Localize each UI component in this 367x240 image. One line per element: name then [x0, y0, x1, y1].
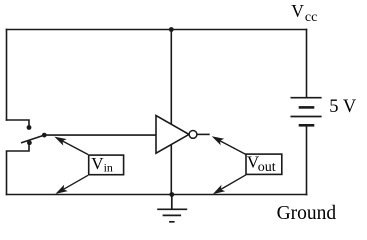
- wire right vertical upper: [306, 30, 308, 98]
- switch SW1 lever: [21, 135, 44, 143]
- ground symbol: [157, 195, 187, 222]
- wire switch lower contact branch: [7, 144, 30, 195]
- svg-text:Ground: Ground: [277, 203, 337, 224]
- wire bottom rail: [7, 194, 307, 196]
- arrow Vin to bottom rail: [55, 175, 88, 194]
- svg-text:in: in: [104, 160, 113, 174]
- wire inverter power vertical: [170, 30, 172, 195]
- wire top rail: [7, 29, 307, 31]
- battery B1 plate long top: [291, 97, 322, 99]
- inverter gate U1 bubble: [189, 131, 197, 139]
- battery B1 plate short upper: [299, 106, 315, 109]
- switch SW1 pivot dot: [42, 133, 47, 138]
- svg-text:V: V: [291, 1, 304, 21]
- svg-text:out: out: [258, 160, 276, 175]
- label box Vin: [89, 155, 124, 175]
- switch SW1 upper contact dot: [27, 125, 32, 130]
- arrow Vin to switch pivot: [54, 137, 88, 155]
- arrow Vout to gate output: [212, 136, 246, 154]
- arrow Vout to bottom rail: [213, 175, 246, 194]
- svg-text:V: V: [91, 154, 104, 173]
- battery B1 plate long bottom: [291, 116, 322, 118]
- junction node at top rail: [169, 27, 174, 32]
- svg-text:5 V: 5 V: [329, 97, 357, 117]
- wire gate input: [44, 134, 156, 136]
- wire switch upper contact branch: [7, 120, 30, 126]
- wire left vertical upper: [6, 30, 8, 121]
- junction node at bottom rail: [169, 192, 174, 197]
- wire right vertical lower: [306, 125, 308, 194]
- inverter gate U1 triangle: [156, 116, 189, 154]
- wire gate output: [197, 133, 209, 135]
- svg-text:cc: cc: [305, 10, 317, 25]
- battery B1 plate short lower: [299, 124, 315, 127]
- label box Vout: [246, 154, 282, 174]
- switch SW1 lower contact dot: [27, 140, 32, 145]
